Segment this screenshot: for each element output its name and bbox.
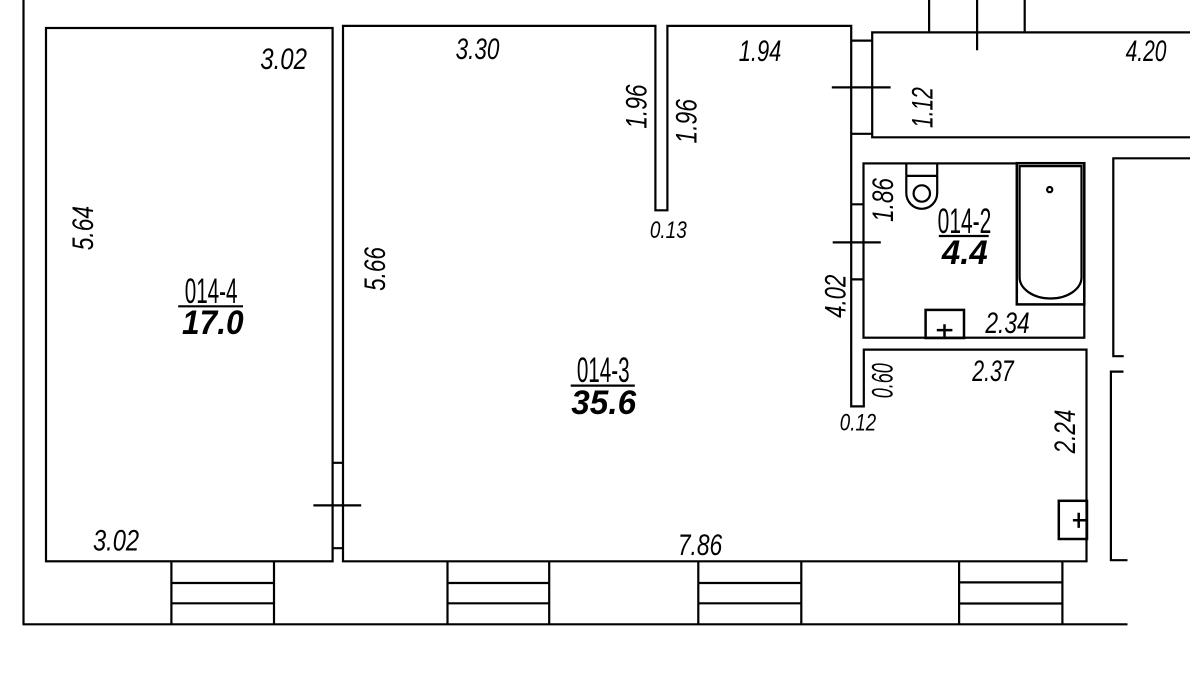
svg-text:1.86: 1.86	[866, 178, 900, 222]
svg-text:0.13: 0.13	[650, 216, 687, 244]
svg-text:4.4: 4.4	[941, 234, 988, 272]
svg-text:5.66: 5.66	[358, 247, 392, 291]
svg-text:0.60: 0.60	[867, 363, 900, 398]
svg-text:1.94: 1.94	[739, 33, 782, 67]
svg-text:4.20: 4.20	[1126, 35, 1167, 67]
svg-text:4.02: 4.02	[818, 274, 852, 317]
svg-text:3.02: 3.02	[93, 524, 139, 557]
svg-text:3.30: 3.30	[456, 32, 500, 66]
svg-text:35.6: 35.6	[571, 385, 636, 422]
svg-text:5.64: 5.64	[66, 206, 100, 250]
svg-text:1.96: 1.96	[669, 99, 703, 144]
svg-text:1.96: 1.96	[619, 84, 653, 129]
svg-text:3.02: 3.02	[260, 41, 307, 75]
svg-text:2.37: 2.37	[971, 353, 1015, 388]
svg-text:7.86: 7.86	[678, 528, 723, 562]
svg-text:2.24: 2.24	[1048, 410, 1082, 455]
svg-text:1.12: 1.12	[907, 87, 939, 128]
svg-text:17.0: 17.0	[182, 303, 244, 341]
svg-text:2.34: 2.34	[984, 306, 1029, 340]
svg-text:0.12: 0.12	[840, 409, 876, 436]
